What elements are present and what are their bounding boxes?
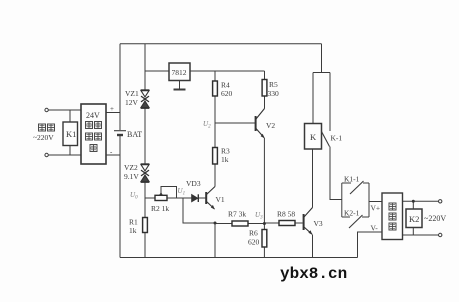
svg-text:VZ1: VZ1 xyxy=(125,89,139,98)
wire branch down from R2 output xyxy=(183,198,215,223)
wire top rail xyxy=(120,43,322,45)
svg-text:V+: V+ xyxy=(371,204,381,213)
charger label glyphs xyxy=(86,122,93,129)
svg-text:K1-1: K1-1 xyxy=(344,175,360,184)
resistor R7 xyxy=(232,221,248,226)
wire contact ladder left vertical xyxy=(341,183,343,217)
svg-text:620: 620 xyxy=(221,89,233,98)
svg-text:R7 3k: R7 3k xyxy=(228,210,246,219)
svg-text:~220V: ~220V xyxy=(424,214,446,223)
svg-text:V2: V2 xyxy=(266,121,275,130)
wire R4 bottom to node U2 xyxy=(214,96,216,123)
terminal AC output bottom xyxy=(439,233,442,236)
svg-text:7812: 7812 xyxy=(172,68,187,77)
wire node to R7 xyxy=(215,223,232,225)
wire K1 stub bottom xyxy=(69,146,71,156)
wire zener column from top rail xyxy=(144,44,146,90)
svg-text:K: K xyxy=(310,132,317,142)
wire K1-1 branch right xyxy=(363,182,369,184)
wire V2 emitter down to node U3 xyxy=(263,138,265,224)
transistor V1 xyxy=(206,187,215,210)
svg-text:~220V: ~220V xyxy=(33,133,54,142)
contact K1-1 xyxy=(350,181,364,194)
wire R6 top stub xyxy=(263,224,265,230)
svg-text:K2-1: K2-1 xyxy=(344,209,360,218)
wire R5 bottom to V2 collector xyxy=(264,97,266,109)
svg-text:V3: V3 xyxy=(314,219,323,228)
svg-text:BAT: BAT xyxy=(127,130,142,139)
svg-text:VZ2: VZ2 xyxy=(124,163,138,172)
terminal AC output top xyxy=(439,200,442,203)
wire node U2 to V2 base xyxy=(215,122,255,124)
svg-text:330: 330 xyxy=(268,89,280,98)
transistor V2 xyxy=(256,109,265,138)
svg-text:R6: R6 xyxy=(249,229,258,238)
wire R1 to ground rail xyxy=(144,233,146,258)
svg-text:+: + xyxy=(110,105,114,113)
inverter box xyxy=(382,193,403,240)
svg-text:620: 620 xyxy=(248,238,260,247)
resistor R1 xyxy=(143,218,148,233)
wire inverter V- to ground rail xyxy=(358,232,383,258)
wire R2 node line xyxy=(145,197,155,199)
wire inverter AC out top xyxy=(403,200,439,202)
relay coil K xyxy=(305,124,322,150)
wire VZ2 to R1 xyxy=(144,181,146,218)
svg-text:U0: U0 xyxy=(130,191,138,201)
wire into K coil top xyxy=(312,73,314,124)
wire 7812 input xyxy=(145,70,169,72)
wire K-1 upper xyxy=(329,73,331,132)
resistor R3 xyxy=(213,148,218,165)
wire R6 bottom to ground xyxy=(263,247,265,258)
resistor R5 xyxy=(262,80,267,97)
wire battery column top xyxy=(119,44,121,130)
wire K2 stub bottom xyxy=(412,228,414,236)
ground 7812 xyxy=(179,81,181,90)
svg-text:U1: U1 xyxy=(178,187,186,197)
relay K2 box xyxy=(406,209,422,228)
node junction V1 emitter xyxy=(214,222,217,225)
svg-text:K1: K1 xyxy=(66,129,76,139)
battery BAT xyxy=(114,130,126,132)
node junction U3 xyxy=(263,222,266,225)
contact K2-1 xyxy=(349,215,363,228)
svg-text:VD3: VD3 xyxy=(186,179,201,188)
zener VZ1 xyxy=(141,90,150,108)
terminal AC input bottom xyxy=(45,153,48,156)
wire top rail down right corner xyxy=(321,44,323,73)
mains label xyxy=(39,124,46,131)
wire AC input bottom xyxy=(48,154,81,156)
charger box 24V xyxy=(81,104,106,164)
transistor V3 xyxy=(304,208,313,235)
wire R2 to VD3 and V1 base xyxy=(167,197,206,199)
wire bottom ground rail xyxy=(120,257,358,259)
regulator U 7812 xyxy=(169,63,190,81)
wire K-1 lower to contact ladder xyxy=(330,147,342,200)
wire V3 collector to K coil xyxy=(312,149,314,208)
wire U2 to R3 top xyxy=(214,123,216,148)
wire R4 top stub xyxy=(214,71,216,81)
svg-text:U2: U2 xyxy=(203,120,211,130)
svg-text:24V: 24V xyxy=(86,111,100,120)
wire between VZ1 and VZ2 xyxy=(144,109,146,164)
diode VD3 xyxy=(192,194,199,202)
resistor R4 xyxy=(213,81,218,96)
wire node U3 to R8 xyxy=(264,222,279,224)
zener VZ2 xyxy=(141,164,150,182)
wire R5 top stub xyxy=(264,71,266,80)
wire charger plus output xyxy=(106,112,120,114)
terminal AC input top xyxy=(45,108,48,111)
wire inverter AC out bottom xyxy=(403,234,439,236)
svg-text:V1: V1 xyxy=(216,195,225,204)
svg-text:U3: U3 xyxy=(255,211,263,221)
svg-text:R5: R5 xyxy=(269,80,278,89)
wire battery column bottom xyxy=(119,136,121,258)
potentiometer R2 xyxy=(155,195,167,200)
wire K2 stub top xyxy=(412,201,414,209)
wire R3 bottom to V1 collector xyxy=(214,164,216,187)
svg-text:K2: K2 xyxy=(409,214,419,224)
svg-text:R8 58: R8 58 xyxy=(277,210,295,219)
resistor R6 xyxy=(262,230,267,248)
wire AC input top xyxy=(48,109,81,111)
wire R2 wiper bracket xyxy=(161,187,177,199)
wire K1 stub top xyxy=(69,110,71,122)
wire V1 emitter to ground xyxy=(214,223,216,258)
wire contact ladder right vertical xyxy=(368,183,370,217)
wire V3 emitter to ground xyxy=(312,235,314,258)
wire K2-1 branch left xyxy=(342,216,350,218)
svg-text:R2 1k: R2 1k xyxy=(151,204,169,213)
wire charger minus output xyxy=(106,154,120,156)
watermark ybx8.cn xyxy=(280,265,347,283)
wire R8 to V3 base xyxy=(295,222,303,224)
wire 7812 output to R5 top xyxy=(190,70,265,72)
resistor R8 xyxy=(279,221,295,226)
wire tee bar above K xyxy=(313,72,330,74)
contact K-1 xyxy=(322,132,330,147)
svg-text:12V: 12V xyxy=(125,98,139,107)
wire K2-1 branch right xyxy=(362,216,369,218)
svg-text:K-1: K-1 xyxy=(331,134,343,143)
svg-text:1k: 1k xyxy=(129,226,137,235)
node junction K2 tap xyxy=(412,200,415,203)
svg-text:V-: V- xyxy=(371,224,379,233)
wire K1-1 branch left xyxy=(342,182,351,184)
wire to inverter V+ xyxy=(369,201,382,203)
wire R7 to node U3 xyxy=(248,223,264,225)
svg-text:1k: 1k xyxy=(221,155,229,164)
relay K1 box xyxy=(63,122,78,146)
svg-text:9.1V: 9.1V xyxy=(124,172,139,181)
